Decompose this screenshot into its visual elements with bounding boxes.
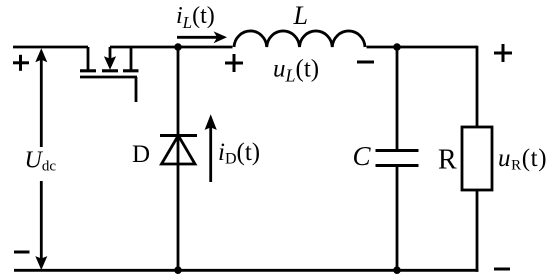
minus sign (inductor right) — [357, 61, 374, 64]
wire diode branch — [177, 47, 180, 270]
node B junction dot — [393, 43, 401, 51]
svg-text:D: D — [132, 141, 150, 168]
node D junction dot — [393, 266, 401, 274]
diode D — [160, 136, 197, 165]
svg-text:C: C — [353, 141, 372, 171]
resistor R body — [462, 127, 492, 190]
node A junction dot — [174, 43, 182, 51]
svg-text:iL(t): iL(t) — [176, 3, 215, 32]
inductor L winding — [234, 31, 365, 47]
arrow i_D — [205, 114, 217, 182]
wire resistor branch lower — [476, 190, 479, 272]
wire capacitor branch upper — [396, 47, 399, 150]
minus sign (bottom right) — [494, 268, 510, 271]
wire top-left segment — [13, 46, 88, 49]
wire top right segment — [367, 46, 478, 49]
arrow i_L — [177, 31, 227, 43]
svg-text:R: R — [438, 145, 457, 176]
minus sign (source bottom) — [14, 251, 30, 254]
transistor Q1 (MOSFET switch) — [80, 47, 139, 102]
wire capacitor branch lower — [396, 166, 399, 270]
capacitor C plates — [376, 151, 419, 166]
svg-text:L: L — [293, 1, 308, 30]
svg-text:uR(t): uR(t) — [498, 145, 547, 174]
node C junction dot — [174, 266, 182, 274]
wire top mid segment — [110, 46, 233, 49]
svg-text:iD(t): iD(t) — [218, 139, 260, 168]
plus sign (top right) — [494, 44, 512, 62]
plus sign (inductor left) — [225, 54, 243, 72]
svg-text:uL(t): uL(t) — [273, 56, 319, 86]
plus sign (source top) — [13, 55, 29, 71]
source arrow U_dc (double-headed) — [35, 48, 47, 270]
wire resistor branch upper — [476, 46, 479, 127]
wire bottom rail — [14, 269, 478, 272]
